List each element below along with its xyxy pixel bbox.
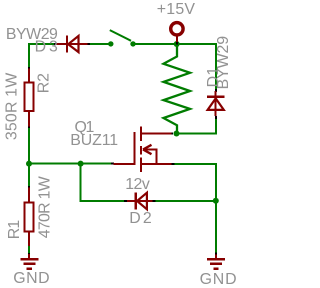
pin-end dark segment D2 left: [124, 200, 127, 202]
pin-end dark segment Q1 source: [172, 163, 175, 165]
pin-end dark segment R2 top: [28, 67, 30, 69]
resistor R1 top pin: [28, 188, 30, 203]
wire R1 bottom pin to left GND: [28, 246, 30, 255]
ground symbol left bar 3: [27, 267, 32, 270]
wire switch right contact to +15V node and corner down to D1 top: [133, 44, 216, 91]
ground symbol right bar 1: [207, 258, 225, 261]
zener D2 cathode bar: [135, 192, 137, 209]
pin-end dark segment right GND top: [215, 253, 217, 256]
svg-text:R1: R1: [6, 220, 23, 240]
pin-end dark segment R1 bottom / GND: [28, 253, 30, 255]
wire gate row from left rail node to Q1 gate pin: [29, 163, 112, 165]
switch S1 right contact: [130, 41, 135, 46]
transistor Q1 channel segment bottom: [140, 158, 142, 172]
ground symbol right bar 3: [213, 267, 218, 270]
ground symbol left bar 2: [23, 263, 35, 266]
svg-text:GND: GND: [200, 271, 237, 288]
wire Q1 source to right column down to source node: [174, 164, 216, 201]
svg-text:BYW29: BYW29: [215, 36, 232, 90]
resistor R1 bottom pin: [28, 232, 30, 246]
wire zener D2 right pin to source node: [155, 200, 216, 202]
diode D1 triangle (outline, pointing up): [208, 98, 224, 110]
pin-end dark segment D2 right: [152, 200, 155, 202]
junction node at drain / inductor bottom: [174, 131, 180, 137]
ground symbol right bar 2: [210, 263, 222, 266]
resistor R2 body: [24, 82, 33, 111]
wire top-left from rail corner to D3 anode: [29, 44, 56, 45]
transistor Q1 channel segment top: [140, 127, 142, 142]
zener D2 triangle (outline, pointing left): [137, 193, 147, 210]
transistor Q1 body arrow barb upper: [143, 145, 152, 150]
wire left rail top segment (corner to R2 top pin): [28, 44, 30, 68]
pin-end dark segment D1 top: [215, 89, 217, 92]
pin-end dark segment D1 bottom: [215, 116, 217, 119]
diode D3 lead through: [56, 43, 88, 45]
transistor Q1 body line to source: [156, 149, 158, 165]
svg-text:470R 1W: 470R 1W: [37, 176, 54, 238]
wire D1 bottom to drain node: [175, 119, 216, 134]
wire left rail middle segment (R2 bottom to R1 top, through node): [28, 127, 30, 188]
diode D3 cathode bar: [66, 35, 68, 52]
ground symbol left bar 1: [20, 258, 38, 261]
junction node at +15V supply: [174, 41, 180, 47]
wire branch down from gate node to zener D2 left pin: [81, 164, 125, 201]
svg-text:12v: 12v: [125, 176, 150, 193]
resistor R2 bottom pin: [28, 112, 30, 127]
transistor Q1 body arrow shaft: [143, 149, 157, 151]
diode D1 lead through (vertical): [215, 91, 217, 116]
pin-end dark segment D3 right: [87, 43, 90, 45]
svg-text:D2: D2: [129, 210, 152, 227]
transistor Q1 channel segment middle: [140, 146, 142, 155]
resistor R2 top pin: [28, 69, 30, 83]
transistor Q1 drain lead: [142, 133, 172, 135]
junction node source/zener/GND: [213, 198, 219, 204]
transistor Q1 gate bar: [134, 132, 136, 165]
ground symbol left pin: [28, 254, 30, 258]
svg-text:BUZ11: BUZ11: [70, 132, 118, 149]
pin-end dark segment D3 left: [54, 43, 58, 45]
inductor L1 (green zigzag coil between +15V node and drain node): [164, 45, 191, 134]
transistor Q1 source lead: [142, 163, 172, 165]
junction node on left rail at gate row: [26, 161, 32, 167]
svg-text:GND: GND: [13, 270, 49, 287]
+15V supply stem: [176, 36, 178, 42]
wire D3 cathode to switch left contact: [88, 43, 111, 45]
diode D3 triangle (outline, pointing left): [68, 36, 78, 52]
+15V supply pin circle: [171, 23, 183, 35]
pin-end dark segment +15V stem bottom: [176, 42, 178, 45]
pin-end dark segment Q1 gate: [111, 163, 114, 165]
svg-text:350R 1W: 350R 1W: [4, 73, 21, 140]
pin-end dark segment R1 top: [28, 186, 30, 189]
pin-end dark segment R2 bottom: [28, 126, 30, 129]
ground symbol right pin: [215, 255, 217, 259]
zener D2 lead through: [127, 200, 152, 202]
pin-end dark segment Q1 drain: [170, 133, 174, 135]
switch S1 left contact: [108, 41, 113, 46]
transistor Q1 gate lead: [114, 163, 136, 165]
switch S1 lever: [110, 30, 131, 41]
svg-text:+15V: +15V: [157, 1, 196, 18]
resistor R1 body: [24, 203, 33, 232]
wire source node down to right GND: [215, 201, 217, 253]
junction node gate/zener branch: [78, 161, 84, 167]
diode D1 cathode bar: [207, 96, 225, 98]
transistor Q1 body arrow barb lower: [143, 150, 152, 155]
svg-text:R2: R2: [36, 73, 53, 93]
